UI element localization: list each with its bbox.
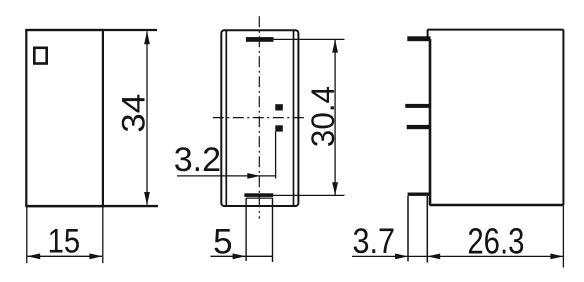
- side view pin 1: [407, 36, 430, 41]
- side view bottom edge: [429, 204, 563, 207]
- dimension line 3.2: [177, 175, 276, 177]
- svg-text:3.7: 3.7: [353, 222, 396, 261]
- svg-text:34: 34: [115, 94, 151, 133]
- bottom pin pad: [244, 193, 273, 197]
- arrow 26.3 right: [550, 254, 563, 260]
- front view orientation mark (small square): [34, 48, 46, 64]
- side view pin 4 bottom: [408, 193, 430, 196]
- bottom view inner wall right: [293, 31, 295, 205]
- dimension line 34: [146, 32, 148, 205]
- horizontal centerline: [213, 117, 306, 119]
- svg-text:5: 5: [213, 223, 232, 262]
- arrow 34 bottom: [144, 192, 150, 205]
- bottom pin outline under pad: [246, 197, 273, 199]
- arrow 3.7 right / 26.3 left: [427, 254, 440, 260]
- vertical centerline: [258, 16, 260, 218]
- extension line 15 right: [102, 207, 104, 263]
- bottom pin outline left / extension 3.7: [407, 196, 409, 262]
- middle pin pad upper: [275, 104, 283, 110]
- extension line 3.2 from lower pad: [275, 132, 277, 179]
- shared dimension line 3.7 / 26.3: [352, 255, 563, 257]
- arrow 30.4 top: [332, 40, 338, 53]
- side view right edge: [562, 30, 564, 205]
- arrow 5: [233, 253, 246, 259]
- svg-text:26.3: 26.3: [467, 221, 524, 262]
- dimension line 5: [210, 255, 272, 257]
- arrow 30.4 bottom: [332, 182, 338, 195]
- arrow 3.7 left: [395, 254, 408, 260]
- bottom pin outline right / extension 3.7-26.3: [426, 196, 428, 263]
- bottom view inner wall left: [225, 31, 227, 205]
- arrow 15 left: [27, 253, 40, 259]
- bottom view outer outline: [221, 30, 298, 206]
- bottom edge extension line for dim 34: [26, 205, 158, 207]
- dimension line 15: [27, 255, 102, 257]
- top pin pad: [246, 37, 274, 42]
- extension line 26.3 right: [562, 206, 564, 268]
- bottom pin side left: [245, 198, 247, 261]
- middle pin pad lower: [275, 125, 283, 131]
- extension line 15 left: [26, 207, 28, 263]
- front view body outline: [26, 30, 103, 206]
- bottom pin side right: [272, 198, 274, 262]
- arrow 34 top: [144, 31, 150, 44]
- side view top edge: [427, 29, 563, 31]
- side view pin 2: [405, 104, 430, 108]
- svg-text:3.2: 3.2: [174, 141, 221, 179]
- extension line 30.4 bottom: [273, 194, 344, 196]
- svg-text:30.4: 30.4: [305, 86, 341, 147]
- dimension line 30.4: [334, 40, 336, 195]
- side view left edge: [429, 39, 432, 205]
- arrow 3.2: [247, 173, 260, 179]
- side view top-left corner lip: [427, 30, 429, 38]
- svg-text:15: 15: [48, 223, 81, 261]
- side view pin 3: [407, 125, 431, 129]
- extension line 30.4 top: [274, 38, 345, 40]
- arrow 15 right: [89, 253, 102, 259]
- top edge extension line for dim 34: [26, 29, 157, 31]
